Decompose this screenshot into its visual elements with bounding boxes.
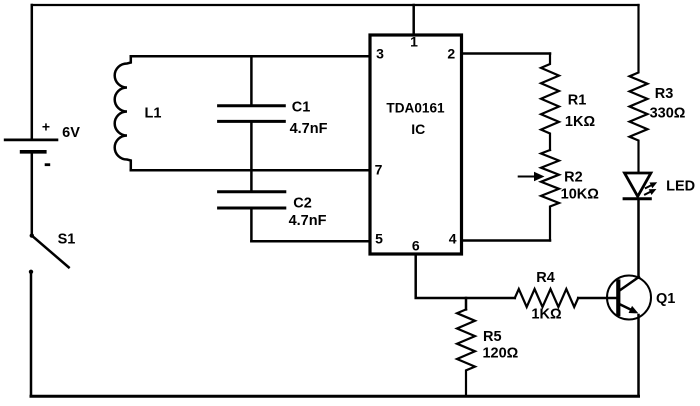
wire LED to Q1 collector: [637, 199, 640, 278]
wire pin2 to R1: [462, 52, 551, 55]
wire bottom rail: [31, 395, 639, 398]
svg-text:L1: L1: [145, 106, 162, 122]
wire L1 bottom to pin7: [131, 169, 370, 172]
svg-text:6V: 6V: [62, 125, 80, 141]
svg-text:1KΩ: 1KΩ: [531, 307, 562, 323]
battery BT 6V: [5, 140, 57, 152]
wire Q1 emitter to bottom rail: [637, 315, 640, 396]
op-amp U1 TDA0161 IC body: [370, 35, 462, 254]
svg-text:3: 3: [376, 46, 384, 62]
svg-text:R3: R3: [655, 86, 674, 102]
svg-text:7: 7: [375, 162, 383, 178]
svg-text:IC: IC: [411, 121, 425, 137]
LED D1: [624, 173, 659, 199]
svg-text:4.7nF: 4.7nF: [290, 121, 328, 137]
resistor R2 (with wiper arrow): [541, 150, 559, 241]
svg-text:+: +: [42, 119, 50, 135]
wire battery - to switch: [31, 152, 34, 235]
svg-text:2: 2: [447, 45, 455, 61]
wire left rail (top to battery +): [31, 5, 34, 140]
svg-text:1: 1: [410, 34, 418, 50]
svg-text:330Ω: 330Ω: [650, 106, 686, 122]
label -: [45, 163, 51, 166]
svg-text:S1: S1: [58, 232, 76, 248]
svg-text:4.7nF: 4.7nF: [289, 213, 327, 229]
resistor R4: [515, 289, 578, 307]
wire pin6 down: [416, 254, 515, 298]
wire C1 bottom to C2 top: [250, 121, 253, 191]
svg-text:6: 6: [412, 238, 420, 254]
svg-text:LED: LED: [666, 179, 695, 195]
R2 wiper arrow: [519, 172, 545, 181]
wire C2 bottom lead: [250, 208, 253, 241]
wire R4 to Q1 base: [578, 297, 618, 300]
svg-text:R2: R2: [564, 170, 583, 186]
wire C2 to pin5: [251, 240, 370, 243]
svg-text:C2: C2: [293, 196, 312, 212]
wire top rail: [32, 4, 639, 6]
resistor R1: [541, 54, 559, 151]
wire L1 top to pin3: [131, 55, 370, 58]
inductor L1: [115, 56, 131, 170]
svg-text:Q1: Q1: [656, 291, 675, 307]
wire pin1 to top rail: [412, 5, 415, 35]
svg-text:R4: R4: [536, 270, 555, 286]
resistor R5: [457, 309, 475, 396]
svg-text:R1: R1: [568, 92, 587, 108]
resistor R3: [630, 5, 648, 173]
wire pin4 to R2 bottom: [462, 239, 551, 242]
wire C1 top lead: [250, 56, 253, 105]
svg-text:4: 4: [449, 230, 457, 246]
svg-text:10KΩ: 10KΩ: [561, 187, 600, 203]
svg-text:R5: R5: [483, 329, 502, 345]
wire R5 top lead: [465, 298, 468, 309]
svg-text:TDA0161: TDA0161: [386, 100, 445, 115]
svg-text:1KΩ: 1KΩ: [565, 114, 596, 130]
capacitor C2: [219, 192, 285, 208]
svg-text:5: 5: [375, 231, 383, 247]
capacitor C1: [219, 106, 285, 122]
wire switch to bottom rail: [30, 272, 33, 397]
transistor Q1: [607, 276, 651, 320]
switch S1: [29, 233, 69, 274]
svg-text:C1: C1: [292, 100, 311, 116]
svg-text:120Ω: 120Ω: [482, 346, 518, 362]
